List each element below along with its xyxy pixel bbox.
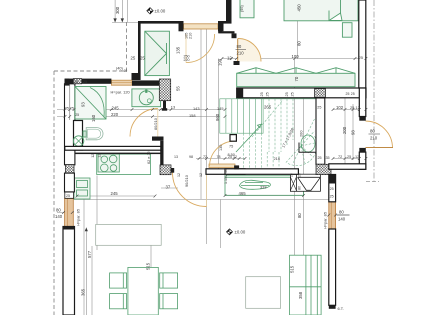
svg-text:35: 35 [74, 80, 78, 84]
jamb cap [232, 33, 237, 38]
sideboard right bottom [290, 255, 322, 315]
svg-text:245: 245 [112, 106, 120, 111]
svg-text:25: 25 [346, 92, 350, 96]
dim tick marks [62, 57, 367, 216]
hatch in bedroom bottom wall [315, 89, 326, 98]
winder radiating treads [285, 119, 315, 164]
dim line x345 right [344, 98, 346, 169]
svg-text:62 e.12: 62 e.12 [147, 151, 151, 164]
right wall hall upper [359, 88, 366, 117]
svg-text:H=par. 85: H=par. 85 [323, 212, 328, 229]
corner block left room [132, 73, 141, 80]
right wall hall lower [359, 152, 366, 169]
basin shelf [132, 89, 161, 107]
svg-text:25: 25 [65, 106, 69, 110]
ticks y195 living [224, 194, 305, 197]
balcony door arc [186, 34, 215, 63]
dim line x127 top [127, 0, 129, 22]
svg-text:158: 158 [189, 113, 196, 118]
dining table [128, 267, 158, 315]
bathroom top wall segment 2 [132, 80, 159, 85]
svg-text:13: 13 [174, 155, 178, 159]
svg-text:(95): (95) [240, 5, 244, 12]
svg-text:80: 80 [370, 129, 375, 134]
svg-text:25: 25 [359, 56, 363, 60]
svg-text:±0.00: ±0.00 [235, 230, 246, 235]
svg-text:H=par. 120: H=par. 120 [111, 90, 131, 95]
dim chain y158 right [333, 158, 366, 160]
left wall lower top cap [63, 227, 75, 230]
hatch pier bedroom bottom wall [315, 89, 326, 98]
treads solid [226, 99, 261, 133]
svg-text:200: 200 [299, 130, 304, 137]
bathroom left wall top piece [65, 79, 70, 86]
bathroom door arc [130, 109, 158, 137]
bedroom bottom wall outline [237, 88, 366, 98]
svg-text:37: 37 [166, 185, 171, 190]
svg-text:25: 25 [347, 155, 351, 159]
svg-text:25: 25 [330, 195, 334, 199]
living right wall below window [329, 229, 336, 305]
dim line x353 right [352, 104, 354, 160]
nightstand left of bed [240, 0, 254, 18]
dim line x84 vertical [83, 199, 85, 315]
dim line x303 vertical [303, 98, 305, 315]
svg-text:25: 25 [289, 173, 293, 177]
svg-text:8.50: 8.50 [228, 153, 235, 157]
svg-text:25: 25 [66, 194, 70, 198]
svg-text:13: 13 [171, 105, 175, 110]
ticks y196 kitchen [76, 195, 157, 198]
bathroom right wall upper stub [163, 99, 166, 109]
left wall top room [138, 21, 141, 73]
svg-text:25: 25 [83, 80, 87, 84]
svg-text:210: 210 [237, 51, 245, 56]
svg-text:100: 100 [292, 54, 300, 59]
svg-text:72: 72 [203, 155, 207, 159]
washbasin circle in vanity [73, 136, 83, 146]
svg-text:145: 145 [217, 106, 224, 111]
svg-text:80: 80 [297, 213, 302, 218]
svg-text:55: 55 [176, 86, 181, 91]
svg-text:±0.00: ±0.00 [155, 9, 166, 14]
pier left of balcony door [179, 21, 184, 31]
living right wall upper [329, 175, 336, 202]
dim line x201 vertical through hall [200, 24, 202, 199]
stair outline upper flight [220, 99, 263, 133]
treads dashed right part [269, 99, 293, 152]
window left wall kitchen [65, 198, 74, 226]
dim chain y158 left [196, 158, 245, 160]
left wall lower outline [63, 227, 75, 315]
blanket fold [329, 13, 342, 21]
svg-text:160: 160 [91, 114, 96, 122]
svg-text:25: 25 [318, 156, 322, 160]
jamb horizontal [218, 31, 234, 33]
hatch pier kitchen left [66, 165, 75, 173]
svg-text:78: 78 [217, 155, 221, 159]
svg-text:515: 515 [290, 265, 295, 273]
hinge notch living door [234, 165, 239, 169]
under-stair closet lines [299, 143, 316, 153]
kitchen island [96, 224, 162, 245]
svg-text:338: 338 [260, 185, 267, 190]
svg-text:140: 140 [338, 217, 346, 222]
nightstand right below bed [342, 23, 352, 38]
svg-text:220: 220 [184, 58, 190, 62]
bathroom left wall white core [65, 84, 75, 165]
balcony door top-left room [184, 24, 219, 29]
svg-text:25: 25 [351, 92, 355, 96]
dim line x297 top [297, 0, 299, 59]
svg-text:H=par. 85: H=par. 85 [76, 209, 81, 226]
counter outline [97, 154, 151, 174]
dim line x86 vertical [85, 228, 87, 315]
svg-text:80: 80 [339, 210, 344, 215]
floor edge line y199 [70, 199, 329, 201]
wall piece to jamb [224, 21, 232, 24]
living right wall upper dark part [329, 175, 336, 184]
dim line x97 vertical [96, 176, 98, 251]
svg-text:25: 25 [317, 106, 321, 110]
svg-text:365: 365 [81, 288, 86, 296]
svg-text:40: 40 [123, 69, 127, 73]
hatch pier bathroom top [73, 79, 81, 84]
svg-text:300: 300 [115, 6, 120, 14]
stove [98, 154, 119, 172]
right wall cap above door [359, 117, 366, 121]
dim line x218 vertical hall [218, 59, 220, 169]
ticks chain y109 [64, 108, 227, 111]
dash-dot line right side [373, 0, 375, 182]
svg-text:1.15/2.10: 1.15/2.10 [224, 169, 228, 184]
svg-text:25: 25 [330, 187, 334, 191]
jamb cap lower [234, 61, 240, 65]
svg-text:80: 80 [298, 186, 302, 190]
kitchen door arc [173, 173, 207, 207]
svg-text:200: 200 [342, 126, 347, 134]
stair top edge continues [263, 98, 316, 100]
winder ellipse [301, 135, 315, 152]
svg-text:140: 140 [55, 214, 63, 219]
svg-text:143: 143 [193, 106, 200, 111]
living door arc [210, 141, 236, 166]
vanity/shaft box [74, 121, 83, 151]
svg-text:960: 960 [215, 113, 220, 121]
svg-text:80/210: 80/210 [153, 117, 158, 130]
partition wall between top rooms [226, 0, 232, 23]
dim line x206 vertical [206, 29, 208, 244]
rug square [246, 277, 281, 309]
svg-text:12: 12 [177, 173, 181, 177]
svg-text:130: 130 [219, 145, 223, 151]
svg-text:80: 80 [237, 44, 242, 49]
bathroom right wall lower cap [152, 137, 164, 141]
newel post [230, 135, 236, 142]
ticks chain y58 [221, 57, 368, 60]
svg-text:72: 72 [338, 155, 342, 159]
svg-text:450: 450 [297, 4, 302, 12]
walk line diagonal [252, 100, 283, 137]
dim line x295 vertical [293, 59, 295, 315]
svg-text:98: 98 [351, 130, 356, 135]
chair 2 [110, 294, 127, 309]
svg-text:577: 577 [87, 250, 92, 258]
svg-text:515: 515 [146, 262, 151, 270]
cap right of kitchen door pier [171, 168, 175, 173]
jamb step down [218, 23, 222, 33]
level marker top [147, 8, 166, 14]
chair 1 [110, 273, 127, 288]
stairwell inner wall [316, 98, 325, 164]
svg-text:80: 80 [56, 208, 61, 213]
shower [75, 87, 106, 120]
dim chain y109 right [333, 109, 366, 111]
svg-text:25: 25 [298, 173, 302, 177]
ticks left window dim [62, 211, 74, 214]
svg-text:98: 98 [189, 155, 193, 159]
dim line y195 sofa [225, 195, 304, 197]
ticks chain y158 left [198, 157, 247, 160]
svg-text:210: 210 [370, 136, 378, 141]
svg-text:25: 25 [291, 92, 295, 96]
chair 3 [160, 273, 178, 288]
dim line x92 vertical [91, 246, 93, 315]
svg-text:210: 210 [189, 33, 193, 39]
svg-text:25: 25 [285, 92, 289, 96]
svg-text:102: 102 [336, 105, 344, 110]
door hall to right bedroom arc [238, 39, 261, 62]
dashed overhang line left vertical [53, 71, 55, 315]
fireplace [290, 174, 320, 191]
dim chain y109 [57, 109, 230, 111]
pier right of balcony door [218, 21, 224, 31]
right wall cap below door [359, 148, 366, 152]
dim line x122 top [121, 0, 123, 22]
ticks chain y158 right [332, 157, 368, 160]
left wall white-core below pier [65, 173, 75, 192]
dim chain y58 top [222, 58, 366, 60]
dim line x220 vertical lower [220, 200, 222, 249]
svg-text:12: 12 [91, 154, 95, 158]
walk line arrow solid [236, 124, 262, 152]
tall unit fridge [74, 178, 90, 199]
right wall bedroom outline [359, 0, 366, 88]
svg-text:12: 12 [98, 154, 102, 158]
ticks chain y116 [64, 115, 227, 118]
daybed sofa [240, 180, 271, 189]
svg-text:216: 216 [274, 156, 281, 161]
svg-text:12: 12 [355, 155, 359, 159]
ticks chain y109 right [332, 108, 368, 111]
dashed overhang line top vertical [126, 22, 128, 71]
washbasin circle hall side [139, 91, 153, 105]
box with 25 above left window [65, 192, 74, 198]
svg-text:12: 12 [199, 173, 203, 177]
chair 4 [160, 294, 178, 309]
svg-text:25: 25 [260, 92, 264, 96]
hall bottom wall [206, 169, 245, 175]
window right wall living [329, 202, 336, 229]
winder arc [288, 136, 317, 166]
treads dashed lower part [244, 133, 279, 168]
svg-text:70: 70 [294, 76, 299, 81]
svg-text:80: 80 [297, 41, 302, 46]
svg-text:190: 190 [218, 58, 223, 66]
top wall left room [138, 21, 179, 24]
wall corner bottom right of hall [329, 164, 366, 170]
entry door right wall [366, 121, 393, 148]
living right wall end cap [329, 305, 336, 309]
hatch pier living right [316, 164, 331, 174]
dim arrowhead 577 line [85, 228, 88, 232]
svg-text:245: 245 [111, 191, 119, 196]
hatch pier hall bottom left [160, 165, 171, 175]
living door leaf along wall [209, 164, 235, 168]
dashed stub right [366, 181, 379, 183]
svg-text:6.T.: 6.T. [338, 306, 344, 311]
toilet [83, 131, 86, 137]
dim line left window [57, 212, 74, 214]
svg-text:25: 25 [70, 106, 74, 110]
wardrobe left room [145, 31, 170, 75]
svg-text:35: 35 [326, 156, 330, 160]
dim ext line y22.4 [112, 21, 138, 23]
svg-text:465: 465 [239, 191, 247, 196]
hatch pier bathroom right [159, 79, 170, 101]
living green zone outline [225, 176, 304, 196]
dim chain y116 [57, 116, 225, 118]
ticks right window dim [327, 214, 337, 217]
svg-text:265: 265 [264, 105, 272, 110]
svg-text:25: 25 [266, 92, 270, 96]
bathroom bottom wall double [65, 146, 161, 150]
svg-text:220: 220 [111, 112, 119, 117]
svg-text:358: 358 [298, 291, 303, 299]
dim arrowheads top 300 [113, 18, 124, 22]
svg-text:25 12: 25 12 [350, 105, 360, 110]
bathroom left wall middle line [69, 85, 71, 121]
window bathroom top wall [111, 80, 132, 85]
dim line right window [334, 214, 350, 216]
svg-text:12: 12 [227, 55, 232, 60]
bathroom top wall segment 1 [65, 79, 112, 84]
svg-text:93: 93 [81, 102, 86, 107]
dim line x115 top [114, 0, 116, 22]
dim line y196 kitchen [77, 195, 155, 197]
bed top-right [284, 0, 358, 21]
dashed overhang line horizontal [54, 70, 127, 72]
svg-text:25: 25 [75, 113, 79, 117]
svg-text:25: 25 [131, 56, 136, 61]
dim line x151 vertical table [150, 245, 152, 315]
svg-text:25: 25 [140, 56, 145, 61]
kitchen top wall line [75, 153, 164, 155]
level marker living [227, 229, 246, 235]
bedroom bottom wall left cap [237, 88, 244, 98]
svg-text:75: 75 [229, 145, 233, 149]
wardrobe bedroom long [237, 73, 355, 86]
svg-text:90/210: 90/210 [184, 174, 189, 187]
dim line y187 [161, 187, 178, 189]
wall between kitchen and hall [160, 141, 163, 166]
svg-text:135: 135 [176, 46, 181, 54]
